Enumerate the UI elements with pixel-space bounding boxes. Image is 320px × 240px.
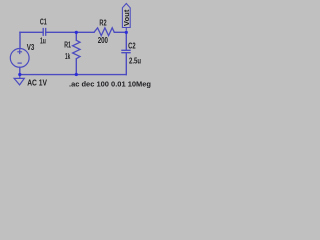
capacitor C1	[43, 28, 46, 36]
svg-text:200: 200	[98, 36, 109, 45]
svg-text:1u: 1u	[40, 36, 46, 45]
svg-text:Vout: Vout	[122, 9, 131, 26]
wire C2 top	[125, 32, 127, 50]
wire top rail left of C1	[20, 31, 43, 33]
svg-text:2.5u: 2.5u	[129, 57, 141, 66]
svg-text:C1: C1	[40, 18, 47, 27]
wire left vertical from top rail to source	[19, 32, 21, 48]
wire R1 top	[75, 32, 77, 40]
Vout port flag	[122, 4, 130, 31]
wire top rail R2 to Vout node	[114, 31, 126, 33]
svg-text:R1: R1	[64, 41, 71, 50]
capacitor C2	[121, 50, 130, 52]
wire C2 bottom	[125, 53, 127, 75]
resistor R2	[94, 28, 114, 36]
wire bottom rail	[20, 74, 127, 76]
junction node R1 bottom	[75, 73, 78, 76]
svg-text:V3: V3	[27, 43, 35, 52]
svg-text:R2: R2	[99, 19, 107, 28]
svg-text:AC 1V: AC 1V	[27, 79, 47, 88]
svg-text:.ac dec 100 0.01 10Meg: .ac dec 100 0.01 10Meg	[69, 81, 151, 88]
svg-text:C2: C2	[128, 41, 136, 50]
voltage source V3	[10, 49, 29, 68]
junction node Vout	[125, 31, 128, 34]
resistor R1	[73, 40, 80, 58]
background	[0, 0, 160, 90]
svg-text:1k: 1k	[65, 52, 71, 61]
junction node at source/ground	[18, 73, 21, 76]
wire top rail C1 to R2	[46, 31, 94, 33]
ground	[14, 75, 24, 85]
wire source bottom to ground node	[19, 67, 21, 74]
wire R1 bottom	[75, 59, 77, 75]
junction node R1 top	[75, 31, 78, 34]
